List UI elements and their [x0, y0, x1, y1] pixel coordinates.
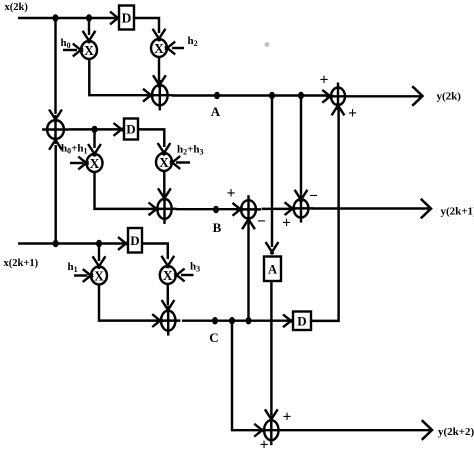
adder S1	[152, 85, 168, 105]
wire: M3 output down/right to adder S2	[95, 172, 155, 209]
node: row C junction up to adder S6	[246, 317, 252, 324]
wire: S7 output to y(2k+1)	[313, 207, 429, 209]
node: row C junction to adder S8	[229, 317, 235, 324]
arrowhead into adder S2 left	[149, 203, 159, 211]
delay D4	[128, 228, 142, 253]
wire: vertical from adder S6 down to row C	[247, 223, 249, 321]
node: junction feeding multiplier M3	[92, 126, 98, 133]
node A dot	[214, 92, 220, 99]
svg-text:A: A	[268, 262, 277, 276]
adder S7	[294, 199, 309, 217]
delay D1	[119, 6, 134, 30]
arrowhead into delay D4	[118, 237, 128, 245]
svg-text:D: D	[122, 10, 132, 25]
svg-text:B: B	[213, 220, 222, 235]
svg-text:x(2k): x(2k)	[5, 2, 29, 13]
stray faint speck artifact	[265, 42, 270, 47]
wire: junction to multiplier M1	[88, 18, 90, 35]
adder S3	[161, 311, 175, 331]
svg-text:X: X	[94, 268, 104, 283]
node C dot	[212, 317, 218, 324]
wire: h1 coefficient arrow	[74, 274, 88, 276]
wire: S6 output to adder S7	[262, 208, 291, 210]
wire: S4 output to delay D2	[69, 128, 120, 130]
wire: h2+h3 coefficient arrow	[176, 161, 190, 163]
arrowhead into multiplier M6 top	[161, 256, 169, 268]
wire: M1 output down/right to adder S1	[89, 59, 148, 95]
svg-text:−: −	[309, 188, 318, 205]
arrowhead into adder S1 top	[153, 75, 161, 87]
multiplier M4 (h2+h3)	[156, 153, 172, 171]
wire: row B from S2 toward adder S6	[177, 208, 238, 210]
wire: M5 output down/right to adder S3	[99, 285, 158, 321]
svg-text:y(2k+1): y(2k+1)	[441, 205, 474, 217]
svg-text:D: D	[126, 122, 135, 137]
wire: junction down to multiplier M3	[93, 129, 95, 148]
arrowhead into delay D1	[110, 12, 120, 20]
svg-text:+: +	[282, 215, 291, 232]
wire: x(2k) input line	[18, 17, 117, 19]
arrowhead into multiplier M1 top	[83, 31, 91, 43]
delay D2	[124, 119, 138, 140]
wire: vertical from row A junction to block A	[271, 96, 273, 248]
arrowhead into multiplier M3 top	[88, 144, 96, 156]
svg-text:A: A	[211, 104, 221, 119]
node: row A junction to adder S7	[298, 92, 304, 99]
arrowhead into adder S6 left	[233, 203, 243, 211]
node: junction on x(2k) line to adder S4	[53, 14, 59, 21]
adder S2	[157, 199, 171, 219]
wire: D1 output to multiplier M2	[134, 18, 159, 33]
wire: S8 output to y(2k+2)	[284, 429, 431, 431]
arrowhead into multiplier M4 top	[158, 143, 166, 155]
wire: M2 output down to adder S1	[158, 57, 160, 81]
arrowhead into adder S7 top	[295, 190, 303, 202]
svg-text:−: −	[257, 213, 266, 230]
svg-text:+: +	[320, 72, 329, 89]
arrowhead into adder S5 bottom	[332, 103, 340, 115]
svg-text:D: D	[297, 313, 306, 328]
wire: D4 output to multiplier M6	[142, 244, 168, 260]
wire: D2 output to multiplier M4	[138, 129, 164, 147]
wire: vertical from row A junction to adder S7	[300, 96, 302, 195]
svg-text:+: +	[260, 437, 269, 451]
svg-text:D: D	[130, 233, 139, 248]
arrowhead into adder S8 left	[254, 424, 264, 432]
arrowhead into delay D3	[283, 314, 293, 322]
arrowhead into multiplier M2 top	[153, 29, 161, 41]
wire: h2 coefficient arrow	[172, 47, 184, 49]
wire: junction down to multiplier M5	[98, 244, 100, 262]
multiplier M6 (h3)	[160, 266, 176, 284]
arrowhead into block A	[266, 242, 274, 254]
multiplier M2 (h2)	[151, 39, 167, 57]
wire: M4 output down to adder S2	[163, 171, 165, 194]
multiplier M5 (h1)	[91, 267, 107, 285]
node: junction on x(2k+1) line to multiplier M5	[96, 240, 102, 247]
arrowhead into adder S4 bottom	[49, 138, 57, 150]
svg-text:+: +	[227, 185, 236, 202]
svg-text:X: X	[163, 268, 173, 283]
adder S8	[264, 420, 278, 440]
multiplier M1 (h0)	[81, 41, 97, 59]
arrowhead into adder S3 left	[152, 314, 162, 322]
wire: row C from S3 to delay D3	[182, 319, 289, 321]
wire: x(2k+1) vertical up into S4	[54, 145, 56, 244]
multiplier M3 (h0+h1)	[87, 154, 103, 172]
wire: h3 coefficient arrow	[181, 274, 194, 276]
arrowhead into adder S3 top	[162, 300, 170, 312]
svg-text:y(2k+2): y(2k+2)	[438, 426, 474, 438]
wire: block A output down to adder S8	[270, 281, 272, 415]
delay D3	[293, 312, 311, 331]
wire: row C junction down and right to adder S8	[232, 321, 259, 431]
svg-text:y(2k): y(2k)	[437, 90, 462, 102]
arrowhead into adder S1 left	[143, 89, 153, 97]
arrowhead into adder S2 top	[158, 188, 166, 200]
arrowhead into adder S7 left	[285, 202, 295, 210]
svg-text:+: +	[348, 105, 357, 122]
block A (coefficient block)	[264, 257, 281, 282]
wire: vertical from x(2k) junction down to adder S4	[54, 18, 56, 114]
node B dot	[213, 206, 219, 213]
arrowhead into adder S4 top	[49, 110, 57, 122]
adder S5	[331, 88, 345, 106]
arrowhead into multiplier M5 top	[93, 256, 101, 268]
adder S6	[241, 200, 256, 218]
node: junction on x(2k+1) line to adder S4	[53, 240, 59, 247]
wire: h0 coefficient arrow	[63, 49, 77, 51]
adder S4 (input sum)	[47, 120, 64, 139]
wire: x(2k+1) input line	[18, 242, 124, 244]
arrowhead into adder S5 left	[322, 90, 332, 98]
wire: D3 output right and up to adder S5	[311, 109, 339, 321]
svg-text:+: +	[283, 408, 292, 425]
arrowhead into adder S6 bottom	[242, 217, 250, 229]
wire: S5 output to y(2k)	[350, 95, 421, 97]
wire: h0+h1 coefficient arrow	[70, 162, 84, 164]
arrowhead into delay D2	[114, 123, 124, 131]
wire: M6 output down to adder S3	[167, 284, 169, 305]
svg-text:X: X	[154, 41, 164, 56]
svg-text:C: C	[209, 330, 218, 345]
svg-text:x(2k+1): x(2k+1)	[4, 258, 39, 269]
node: row A junction to block A	[269, 92, 275, 99]
svg-text:X: X	[90, 156, 100, 171]
wire: row A from S1 toward adder S5	[172, 94, 329, 96]
svg-text:X: X	[84, 43, 94, 58]
arrowhead into adder S8 top	[265, 409, 273, 421]
node: junction on x(2k) line to multiplier M1	[86, 14, 92, 21]
svg-text:X: X	[159, 155, 169, 170]
